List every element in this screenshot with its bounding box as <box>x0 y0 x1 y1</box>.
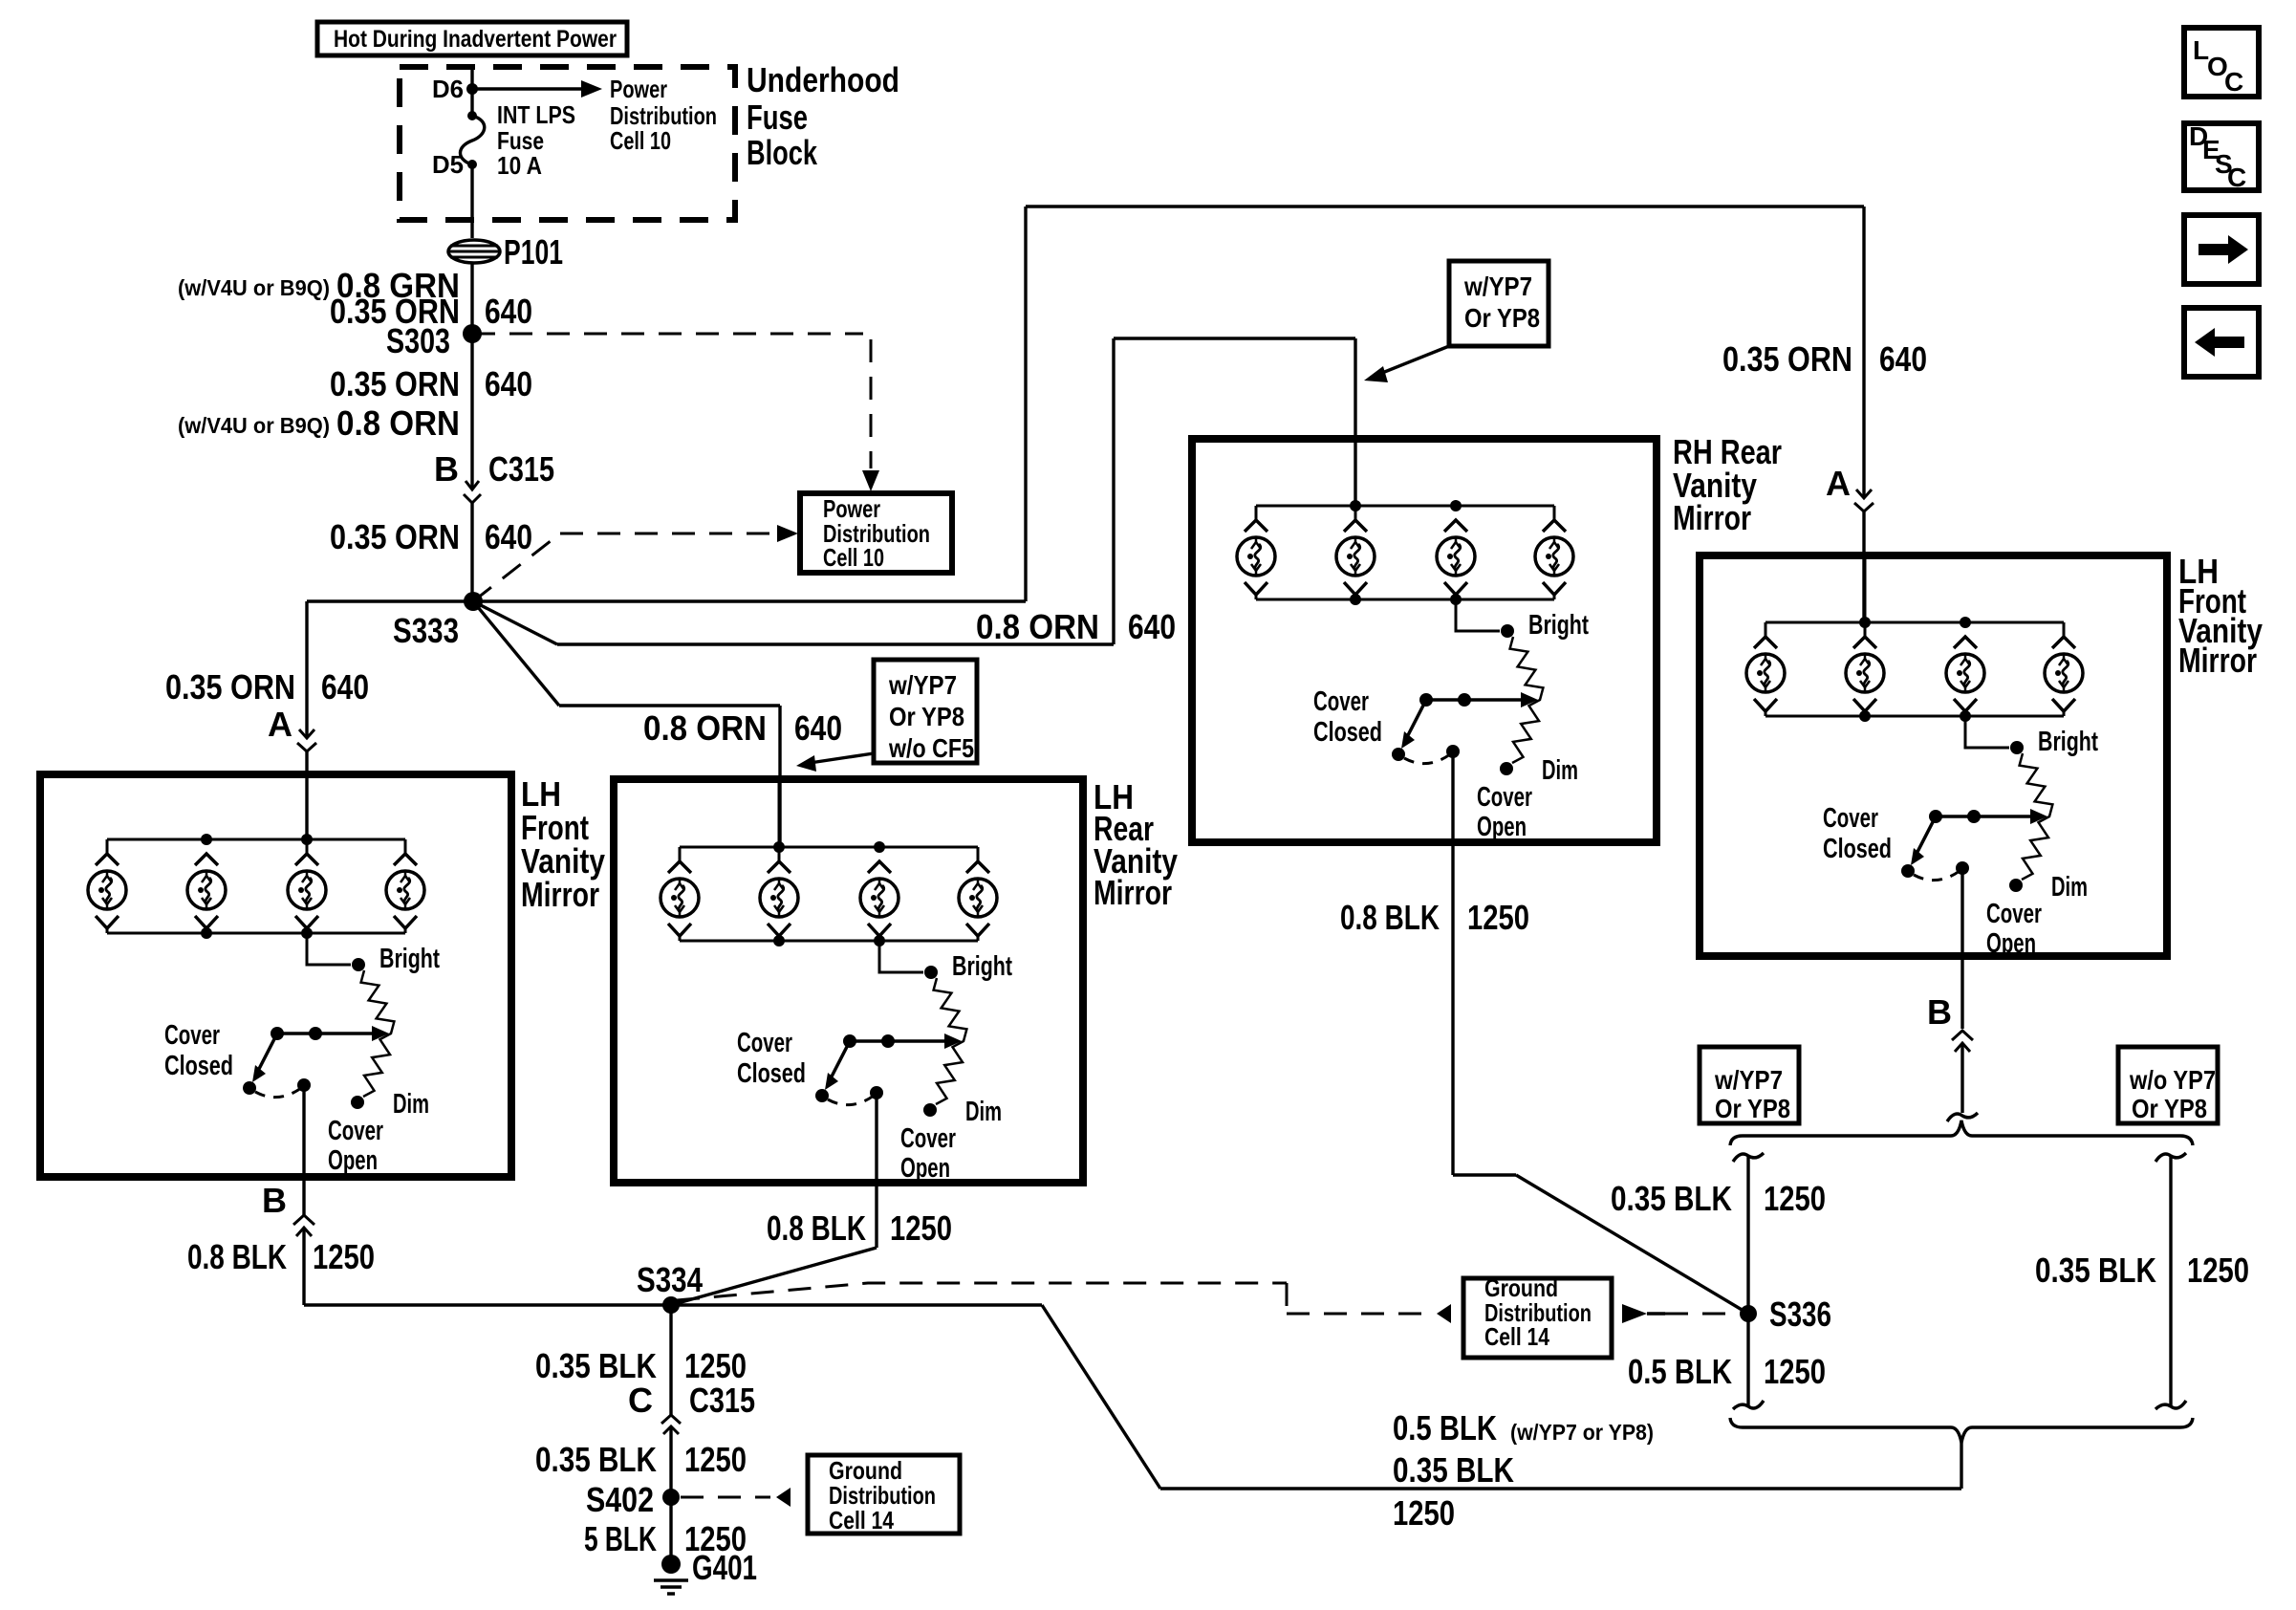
svg-text:5 BLK: 5 BLK <box>584 1519 657 1558</box>
svg-text:(w/YP7 or YP8): (w/YP7 or YP8) <box>1510 1420 1654 1445</box>
svg-text:Or YP8: Or YP8 <box>1464 303 1540 333</box>
svg-text:S303: S303 <box>386 321 450 360</box>
svg-text:0.35 ORN: 0.35 ORN <box>330 364 460 403</box>
svg-text:S402: S402 <box>586 1480 654 1519</box>
svg-text:A: A <box>1826 464 1851 503</box>
svg-text:Cover: Cover <box>1477 782 1532 813</box>
svg-text:Dim: Dim <box>2051 872 2088 903</box>
svg-text:640: 640 <box>794 708 842 748</box>
svg-text:0.35 ORN: 0.35 ORN <box>165 667 295 707</box>
svg-text:Hot During Inadvertent Power: Hot During Inadvertent Power <box>334 26 617 53</box>
svg-text:C315: C315 <box>488 449 554 489</box>
svg-text:Open: Open <box>1986 928 2036 959</box>
svg-text:1250: 1250 <box>684 1440 747 1479</box>
svg-text:1250: 1250 <box>1764 1352 1826 1391</box>
svg-text:0.35 BLK: 0.35 BLK <box>1393 1450 1514 1490</box>
svg-text:A: A <box>268 705 292 744</box>
svg-text:640: 640 <box>485 517 532 556</box>
svg-text:w/YP7: w/YP7 <box>888 670 957 700</box>
svg-text:Bright: Bright <box>2038 727 2098 757</box>
svg-text:Cover: Cover <box>1313 686 1369 717</box>
svg-text:C: C <box>2227 163 2246 192</box>
svg-text:1250: 1250 <box>1393 1493 1455 1533</box>
svg-text:INT LPS: INT LPS <box>497 100 575 129</box>
svg-text:Closed: Closed <box>1823 834 1892 864</box>
svg-text:0.35 BLK: 0.35 BLK <box>1611 1179 1732 1218</box>
svg-text:Bright: Bright <box>1528 610 1589 641</box>
svg-text:1250: 1250 <box>1467 898 1529 937</box>
svg-text:D5: D5 <box>432 150 464 179</box>
svg-text:640: 640 <box>485 364 532 403</box>
svg-text:1250: 1250 <box>313 1237 375 1276</box>
svg-text:0.35 ORN: 0.35 ORN <box>1722 339 1852 379</box>
svg-text:1250: 1250 <box>890 1208 952 1248</box>
svg-text:(w/V4U or B9Q): (w/V4U or B9Q) <box>178 413 330 438</box>
svg-text:Mirror: Mirror <box>521 875 599 914</box>
svg-text:B: B <box>434 449 459 489</box>
svg-text:640: 640 <box>485 292 532 331</box>
svg-text:Cover: Cover <box>900 1123 956 1154</box>
svg-text:S336: S336 <box>1769 1295 1831 1334</box>
svg-text:Open: Open <box>328 1145 378 1176</box>
svg-text:Underhood: Underhood <box>747 60 899 99</box>
svg-text:P101: P101 <box>504 232 563 272</box>
svg-text:B: B <box>262 1181 287 1220</box>
svg-text:(w/V4U or B9Q): (w/V4U or B9Q) <box>178 275 330 300</box>
svg-text:Cell 10: Cell 10 <box>823 543 884 572</box>
svg-text:w/YP7: w/YP7 <box>1463 272 1532 301</box>
svg-text:1250: 1250 <box>2187 1251 2249 1290</box>
svg-text:640: 640 <box>1879 339 1927 379</box>
svg-text:Closed: Closed <box>1313 717 1382 748</box>
svg-text:G401: G401 <box>692 1548 757 1587</box>
svg-text:Dim: Dim <box>1542 755 1578 786</box>
svg-text:10 A: 10 A <box>497 151 542 180</box>
svg-text:0.8 ORN: 0.8 ORN <box>976 607 1099 646</box>
svg-text:C315: C315 <box>689 1381 755 1420</box>
svg-text:Or YP8: Or YP8 <box>889 702 964 731</box>
svg-text:Dim: Dim <box>965 1097 1002 1127</box>
svg-text:1250: 1250 <box>684 1346 747 1385</box>
svg-text:Closed: Closed <box>164 1051 233 1081</box>
svg-text:Cell 10: Cell 10 <box>610 126 671 155</box>
svg-text:Or YP8: Or YP8 <box>1715 1094 1790 1123</box>
svg-text:w/YP7: w/YP7 <box>1714 1065 1783 1095</box>
svg-text:0.8 BLK: 0.8 BLK <box>1340 898 1440 937</box>
svg-text:S334: S334 <box>637 1260 703 1299</box>
svg-text:640: 640 <box>1128 607 1176 646</box>
svg-text:0.35 BLK: 0.35 BLK <box>535 1346 657 1385</box>
svg-text:w/o CF5: w/o CF5 <box>888 733 974 763</box>
svg-text:Cover: Cover <box>328 1116 383 1146</box>
svg-text:Mirror: Mirror <box>2178 641 2257 680</box>
svg-text:0.35 BLK: 0.35 BLK <box>535 1440 657 1479</box>
svg-text:Bright: Bright <box>379 944 440 974</box>
svg-text:0.8 BLK: 0.8 BLK <box>187 1237 287 1276</box>
svg-text:Cell 14: Cell 14 <box>1484 1322 1549 1351</box>
svg-text:D6: D6 <box>432 75 464 103</box>
svg-text:w/o YP7: w/o YP7 <box>2129 1065 2216 1095</box>
svg-text:Cell 14: Cell 14 <box>829 1506 894 1534</box>
svg-text:Dim: Dim <box>393 1089 429 1120</box>
svg-text:B: B <box>1927 992 1952 1032</box>
svg-text:0.8 BLK: 0.8 BLK <box>767 1208 866 1248</box>
svg-text:640: 640 <box>321 667 369 707</box>
svg-text:Cover: Cover <box>1823 803 1878 834</box>
svg-text:Block: Block <box>747 133 818 172</box>
svg-text:Cover: Cover <box>1986 899 2042 929</box>
svg-text:Cover: Cover <box>164 1020 220 1051</box>
svg-text:Fuse: Fuse <box>747 98 808 137</box>
svg-text:0.5 BLK: 0.5 BLK <box>1628 1352 1732 1391</box>
svg-text:S333: S333 <box>393 611 459 650</box>
svg-text:0.8 ORN: 0.8 ORN <box>336 403 460 443</box>
svg-text:0.8 ORN: 0.8 ORN <box>643 708 767 748</box>
svg-text:0.5 BLK: 0.5 BLK <box>1393 1408 1497 1447</box>
svg-text:Mirror: Mirror <box>1673 498 1751 537</box>
svg-text:C: C <box>628 1381 653 1420</box>
svg-text:Power: Power <box>610 75 667 103</box>
svg-text:Mirror: Mirror <box>1094 873 1172 912</box>
svg-text:0.35 ORN: 0.35 ORN <box>330 517 460 556</box>
svg-text:Open: Open <box>1477 812 1527 842</box>
svg-text:Open: Open <box>900 1153 950 1184</box>
svg-text:Bright: Bright <box>952 951 1012 982</box>
svg-text:Closed: Closed <box>737 1058 806 1089</box>
svg-text:C: C <box>2224 67 2243 97</box>
svg-text:Or YP8: Or YP8 <box>2132 1094 2207 1123</box>
svg-text:1250: 1250 <box>1764 1179 1826 1218</box>
svg-text:Cover: Cover <box>737 1028 792 1058</box>
svg-text:0.35 BLK: 0.35 BLK <box>2035 1251 2156 1290</box>
